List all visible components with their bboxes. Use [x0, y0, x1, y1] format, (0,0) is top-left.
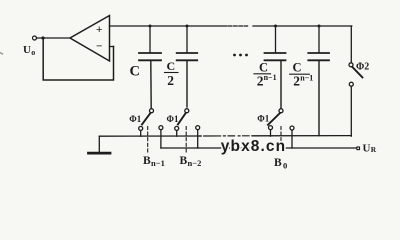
switch S0: SPDT bit switch under capacitor C/2^(n-1) [268, 109, 294, 148]
label phi-1 for S0 [257, 113, 269, 123]
svg-text:n−1: n−1 [264, 73, 277, 82]
label C [130, 64, 140, 80]
svg-text:o: o [31, 48, 35, 57]
switch S(n-1): SPDT bit switch under capacitor C [139, 109, 163, 148]
wire: UR bus to reference terminal [161, 147, 357, 149]
wire: inverting input stub [110, 46, 114, 48]
wire: top rail (comparator + input to summing node bus), solid then dashed gap then solid [110, 25, 352, 27]
node: top rail tap for capacitor C [149, 25, 152, 28]
capacitor C/2^(n-1) dummy (terminating) [308, 26, 329, 136]
node: top rail tap for dummy capacitor C/2^(n-1) [318, 25, 321, 28]
svg-text:ybx8.cn: ybx8.cn [221, 138, 286, 155]
label phi-1 for S(n-1) [129, 114, 141, 124]
svg-text:Φ1: Φ1 [167, 114, 179, 124]
label C/2^(n-1) [254, 60, 277, 88]
label Uo [23, 44, 35, 57]
capacitor C (MSB) [139, 26, 161, 108]
svg-text:Φ1: Φ1 [257, 113, 269, 123]
svg-text:n−1: n−1 [300, 74, 313, 83]
dashed control line B(n-1) [147, 127, 149, 153]
svg-text:U: U [363, 143, 371, 155]
label UR [363, 143, 377, 155]
label phi-2 [356, 62, 369, 73]
svg-text:−: − [96, 41, 102, 53]
dashed control line B(n-2) [185, 127, 187, 153]
node: top rail tap for capacitor C/2^(n-1) [274, 25, 277, 28]
output wire from op-amp apex to Uo terminal [37, 37, 71, 39]
label B0 [274, 157, 287, 171]
svg-text:0: 0 [283, 161, 287, 171]
label B(n-1) [143, 155, 165, 168]
svg-text:C: C [167, 59, 176, 73]
wire: ground bus (solid, dash-dot gap, solid) [99, 135, 351, 138]
node: top rail tap for capacitor C/2 [186, 25, 189, 28]
op-amp comparator A (triangle, inputs + top / - bottom, output to left) [70, 16, 110, 62]
node: feedback junction on output wire [41, 36, 44, 39]
svg-text:B: B [143, 155, 151, 167]
label phi-1 for S(n-2) [167, 114, 179, 124]
terminal UR (small open square) [357, 147, 360, 150]
svg-text:C: C [130, 64, 140, 80]
ground symbol [89, 136, 111, 153]
label C/2 (fraction) [165, 59, 179, 88]
wire: feedback loop from - input down, left, and up to output node [43, 38, 113, 80]
svg-text:2: 2 [167, 73, 174, 88]
capacitor C/2^(n-1) (LSB) [265, 26, 286, 108]
terminal Uo (open circle) [33, 36, 37, 40]
svg-text:Φ2: Φ2 [356, 62, 369, 73]
switch S(n-2): SPDT bit switch under capacitor C/2 [175, 109, 200, 148]
svg-text:Φ1: Φ1 [129, 114, 141, 124]
svg-text:B: B [180, 155, 188, 167]
svg-text:n−1: n−1 [151, 158, 165, 168]
svg-text:C: C [293, 60, 302, 74]
label B(n-2) [180, 155, 202, 168]
svg-text:U: U [23, 44, 31, 56]
svg-text:B: B [274, 157, 282, 169]
svg-text:R: R [371, 145, 377, 154]
capacitor C/2 [177, 26, 198, 107]
svg-text:n−2: n−2 [188, 158, 202, 168]
ellipsis dots between capacitor groups [233, 54, 248, 57]
svg-text:+: + [96, 24, 102, 36]
svg-text:C: C [259, 60, 268, 74]
switch phi-2 (sampling switch, top rail to ground bus) [349, 26, 362, 136]
dashed control line B0 [280, 127, 282, 153]
svg-text:2: 2 [293, 74, 300, 89]
stray scan speck at left edge [0, 53, 3, 55]
label C/2^(n-1) dummy [290, 60, 314, 88]
watermark ybx8.cn [221, 138, 286, 155]
